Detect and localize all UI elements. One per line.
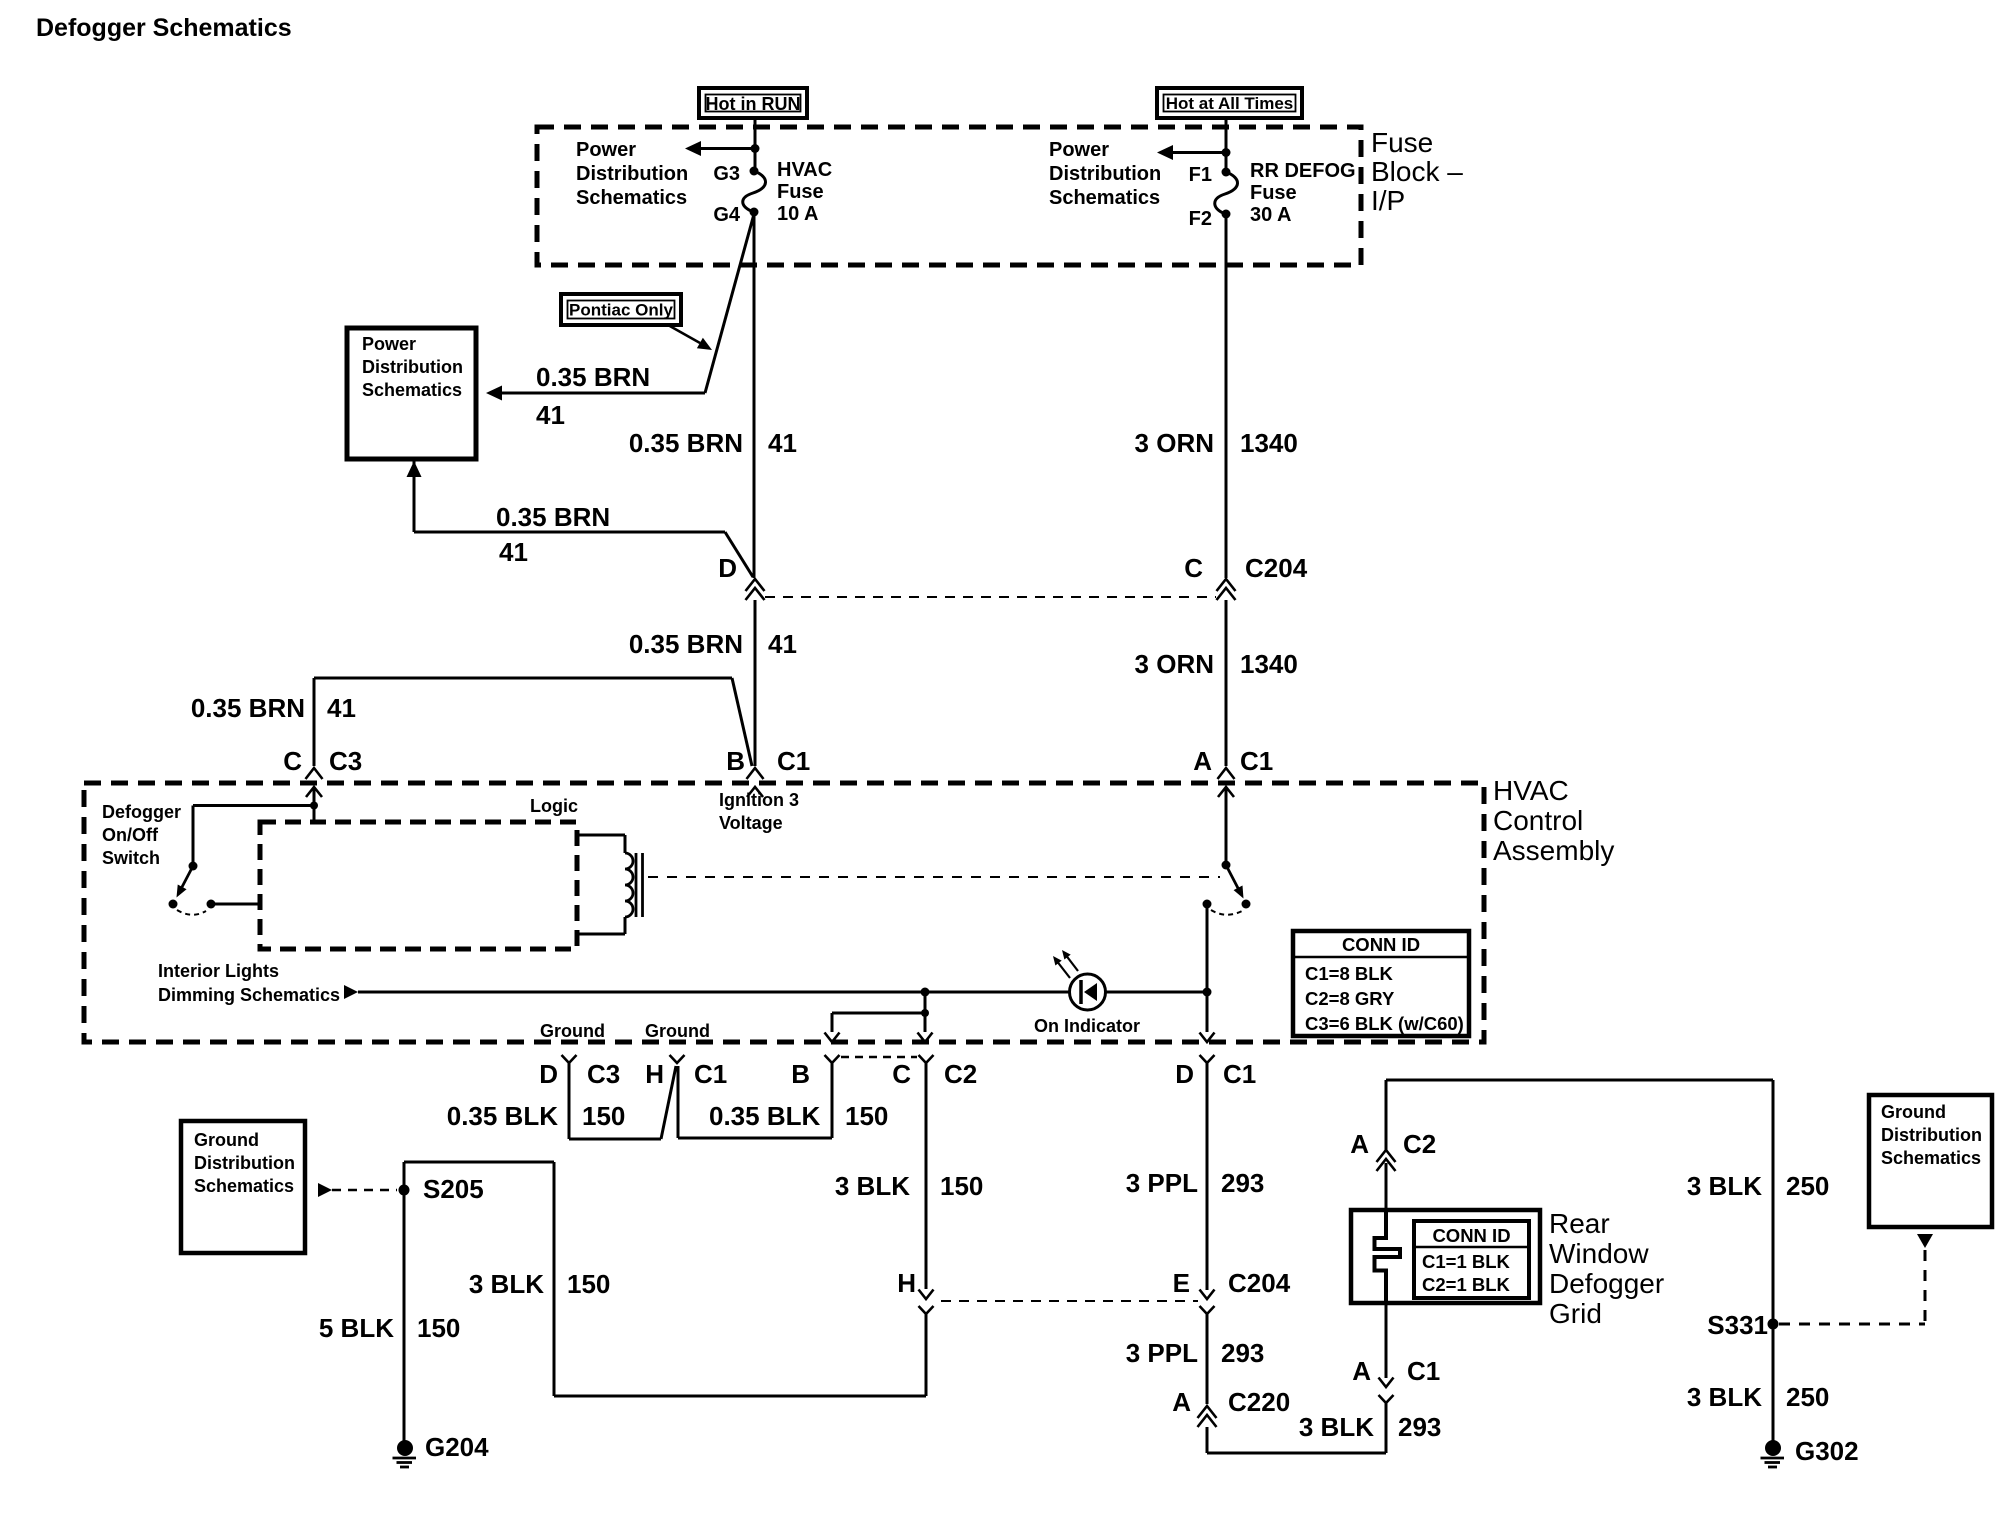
svg-text:Schematics: Schematics <box>1049 187 1160 209</box>
svg-text:Schematics: Schematics <box>194 1176 294 1196</box>
LED light rays <box>1056 960 1070 978</box>
svg-text:I/P: I/P <box>1371 185 1405 216</box>
junction dot at HVAC feed <box>751 144 760 153</box>
junction dot at RR DEFOG feed <box>1222 148 1231 157</box>
rear window defogger grid box <box>1351 1210 1540 1303</box>
svg-text:Switch: Switch <box>102 848 160 868</box>
svg-text:On Indicator: On Indicator <box>1034 1016 1140 1036</box>
svg-text:0.35 BRN: 0.35 BRN <box>536 362 650 392</box>
leader arrow from Pontiac Only box <box>668 325 700 343</box>
fuse block I/P dashed box <box>537 127 1361 265</box>
svg-text:Hot at All Times: Hot at All Times <box>1166 94 1294 113</box>
ground G302 <box>1765 1440 1781 1456</box>
svg-text:3 BLK: 3 BLK <box>1687 1171 1762 1201</box>
svg-text:293: 293 <box>1221 1338 1264 1368</box>
svg-text:Defogger: Defogger <box>102 802 181 822</box>
svg-text:A: A <box>1350 1129 1369 1159</box>
svg-text:C: C <box>283 746 302 776</box>
wire: power distribution branch arrow (right) <box>1173 151 1226 154</box>
wire: 0.35 BRN 41 branch to C3 <box>314 677 732 680</box>
svg-text:Distribution: Distribution <box>362 357 463 377</box>
svg-text:10 A: 10 A <box>777 203 819 225</box>
wire: 0.35 BRN branch to power dist (second) <box>407 461 422 477</box>
svg-text:C2: C2 <box>944 1059 977 1089</box>
relay coil feed wires <box>577 834 625 837</box>
svg-text:C220: C220 <box>1228 1387 1290 1417</box>
svg-text:150: 150 <box>845 1101 888 1131</box>
splice S205 <box>399 1185 410 1196</box>
svg-text:Distribution: Distribution <box>576 163 688 185</box>
svg-text:C1: C1 <box>1223 1059 1256 1089</box>
svg-text:Voltage: Voltage <box>719 813 783 833</box>
wire: 3 BLK 293 run to grid <box>1206 1427 1209 1453</box>
HVAC control assembly dashed box <box>84 783 1484 1042</box>
ref box: Ground Distribution Schematics (left) <box>181 1121 305 1253</box>
svg-text:Schematics: Schematics <box>362 380 462 400</box>
ref box: Power Distribution Schematics <box>347 328 476 459</box>
wire: 3 ORN 1340 C204 to HVAC <box>1225 600 1228 766</box>
svg-text:Window: Window <box>1549 1238 1649 1269</box>
defogger on/off switch <box>189 862 198 871</box>
switch throw dashed arc <box>177 910 206 915</box>
svg-text:3 PPL: 3 PPL <box>1126 1338 1198 1368</box>
wire: 5 BLK 150 to G204 <box>403 1162 406 1441</box>
svg-text:S205: S205 <box>423 1174 484 1204</box>
svg-text:RR DEFOG: RR DEFOG <box>1250 160 1356 182</box>
svg-text:Dimming Schematics: Dimming Schematics <box>158 985 340 1005</box>
junction dot ground branch <box>921 988 930 997</box>
svg-text:Rear: Rear <box>1549 1208 1610 1239</box>
svg-text:C1: C1 <box>777 746 810 776</box>
svg-text:Distribution: Distribution <box>1049 163 1161 185</box>
pin G4 <box>750 208 759 217</box>
relay core bars <box>635 853 638 917</box>
defogger grid element <box>1375 1212 1401 1301</box>
svg-text:Ground: Ground <box>194 1130 259 1150</box>
svg-text:30 A: 30 A <box>1250 204 1292 226</box>
dashed jumper pin B to pin C <box>841 1056 917 1059</box>
svg-text:C3: C3 <box>329 746 362 776</box>
svg-text:Ground: Ground <box>1881 1102 1946 1122</box>
interior lights dimming feed arrow <box>344 985 358 999</box>
svg-text:3 BLK: 3 BLK <box>1299 1412 1374 1442</box>
wire: ground branch down <box>924 992 927 1013</box>
wire: grid C2 up <box>1385 1163 1388 1210</box>
dashed ref to ground distribution (right) <box>1779 1323 1925 1326</box>
svg-text:C204: C204 <box>1228 1268 1291 1298</box>
wire: LED to relay node <box>1106 991 1207 994</box>
flag box: Pontiac Only <box>561 294 681 325</box>
svg-text:B: B <box>726 746 745 776</box>
svg-text:Hot in RUN: Hot in RUN <box>706 94 801 114</box>
logic dashed box <box>260 822 577 949</box>
svg-text:Ignition 3: Ignition 3 <box>719 790 799 810</box>
wire: relay output down <box>1206 904 1209 992</box>
wire: grid element to C1 <box>1385 1303 1388 1378</box>
wire: relay node to pin D <box>1206 992 1209 1032</box>
svg-text:3 ORN: 3 ORN <box>1135 428 1214 458</box>
relay coil <box>625 853 633 917</box>
svg-text:G302: G302 <box>1795 1436 1859 1466</box>
svg-text:C2=1 BLK: C2=1 BLK <box>1422 1274 1511 1295</box>
wire: 3 BLK 150 to S205 run <box>925 1314 928 1396</box>
svg-text:3 BLK: 3 BLK <box>1687 1382 1762 1412</box>
svg-text:C1=8 BLK: C1=8 BLK <box>1305 963 1394 984</box>
svg-text:Power: Power <box>362 334 416 354</box>
svg-text:Schematics: Schematics <box>1881 1148 1981 1168</box>
svg-text:293: 293 <box>1221 1168 1264 1198</box>
svg-text:Power: Power <box>1049 139 1109 161</box>
svg-text:C204: C204 <box>1245 553 1308 583</box>
ground G204 <box>397 1440 413 1456</box>
svg-text:B: B <box>791 1059 810 1089</box>
svg-text:3 PPL: 3 PPL <box>1126 1168 1198 1198</box>
svg-text:150: 150 <box>567 1269 610 1299</box>
splice S331 <box>1768 1319 1779 1330</box>
svg-text:293: 293 <box>1398 1412 1441 1442</box>
wire: 0.35 BLK 150 H to B <box>677 1066 680 1138</box>
svg-text:D: D <box>718 553 737 583</box>
svg-text:Power: Power <box>576 139 636 161</box>
wire: branch to pin C <box>924 1013 927 1032</box>
svg-text:Defogger Schematics: Defogger Schematics <box>36 14 292 42</box>
wire: 3 PPL 293 pin D to C204 <box>1206 1063 1209 1290</box>
svg-text:D: D <box>539 1059 558 1089</box>
svg-text:HVAC: HVAC <box>1493 775 1569 806</box>
svg-text:3 ORN: 3 ORN <box>1135 649 1214 679</box>
svg-text:Distribution: Distribution <box>1881 1125 1982 1145</box>
relay throw dashed arc <box>1211 910 1242 915</box>
flag box: Hot at All Times <box>1157 88 1302 118</box>
relay actuation dashed link <box>648 876 1220 878</box>
svg-text:C3=6 BLK (w/C60): C3=6 BLK (w/C60) <box>1305 1013 1464 1034</box>
conn id table (HVAC) <box>1293 931 1469 1036</box>
svg-text:250: 250 <box>1786 1171 1829 1201</box>
wire: RR DEFOG feed drop <box>1225 118 1228 172</box>
svg-text:0.35 BRN: 0.35 BRN <box>191 693 305 723</box>
junction dot ground branch 2 <box>921 1009 929 1017</box>
svg-text:E: E <box>1173 1268 1190 1298</box>
relay switch <box>1222 861 1231 870</box>
svg-text:5 BLK: 5 BLK <box>319 1313 394 1343</box>
svg-text:C: C <box>892 1059 911 1089</box>
svg-text:0.35 BRN: 0.35 BRN <box>629 629 743 659</box>
connector C204 dashed tie line <box>765 596 1216 598</box>
wire: 0.35 BRN 41 C204 to HVAC <box>754 600 757 766</box>
svg-text:A: A <box>1172 1387 1191 1417</box>
svg-text:150: 150 <box>417 1313 460 1343</box>
svg-text:41: 41 <box>768 629 797 659</box>
svg-text:Block –: Block – <box>1371 156 1463 187</box>
wire: 0.35 BRN branch to power dist (Pontiac) <box>705 214 754 393</box>
connector H inline (female) <box>919 1306 934 1314</box>
ref box: Ground Distribution Schematics (right) <box>1869 1095 1992 1227</box>
svg-text:0.35 BRN: 0.35 BRN <box>496 502 610 532</box>
svg-text:S331: S331 <box>1707 1310 1768 1340</box>
svg-text:41: 41 <box>768 428 797 458</box>
svg-text:CONN ID: CONN ID <box>1342 934 1420 955</box>
svg-text:F2: F2 <box>1189 208 1212 230</box>
svg-text:41: 41 <box>536 400 565 430</box>
svg-text:Fuse: Fuse <box>1371 127 1433 158</box>
svg-text:0.35 BRN: 0.35 BRN <box>629 428 743 458</box>
svg-text:3 BLK: 3 BLK <box>469 1269 544 1299</box>
svg-text:H: H <box>897 1268 916 1298</box>
LED on indicator <box>1070 974 1106 1010</box>
wire: 3 BLK 250 top run <box>1386 1079 1773 1082</box>
svg-text:C3: C3 <box>587 1059 620 1089</box>
svg-text:3 BLK: 3 BLK <box>835 1171 910 1201</box>
pin F2 <box>1222 210 1231 219</box>
svg-text:Assembly: Assembly <box>1493 835 1614 866</box>
wire: power distribution branch arrow (left) <box>701 147 755 150</box>
svg-text:On/Off: On/Off <box>102 825 159 845</box>
svg-text:C2=8 GRY: C2=8 GRY <box>1305 988 1395 1009</box>
svg-text:Ground: Ground <box>540 1021 605 1041</box>
pin G3 <box>750 167 759 176</box>
svg-text:H: H <box>645 1059 664 1089</box>
svg-text:A: A <box>1193 746 1212 776</box>
svg-text:Grid: Grid <box>1549 1298 1602 1329</box>
fuse RR DEFOG 30A element <box>1215 172 1238 214</box>
svg-text:Distribution: Distribution <box>194 1153 295 1173</box>
svg-text:Pontiac Only: Pontiac Only <box>569 301 673 320</box>
svg-text:Fuse: Fuse <box>777 181 824 203</box>
svg-text:G204: G204 <box>425 1432 489 1462</box>
svg-text:Schematics: Schematics <box>576 187 687 209</box>
svg-text:41: 41 <box>327 693 356 723</box>
fuse HVAC 10A element <box>743 171 766 212</box>
pin F1 <box>1222 168 1231 177</box>
svg-text:0.35 BLK: 0.35 BLK <box>709 1101 820 1131</box>
wire: branch to pin B <box>832 1012 925 1015</box>
svg-text:Defogger: Defogger <box>1549 1268 1664 1299</box>
dashed tie to connector E <box>941 1300 1198 1302</box>
svg-text:A: A <box>1352 1356 1371 1386</box>
svg-text:Control: Control <box>1493 805 1583 836</box>
junction dot at relay output <box>1203 988 1212 997</box>
wire: 3 PPL 293 C204 to C220 <box>1206 1314 1209 1404</box>
wire: Hot in RUN feed drop <box>754 118 757 171</box>
svg-text:Logic: Logic <box>530 796 578 816</box>
junction dot C3 node <box>310 802 318 810</box>
svg-text:G3: G3 <box>713 163 740 185</box>
svg-text:Fuse: Fuse <box>1250 182 1297 204</box>
svg-text:41: 41 <box>499 537 528 567</box>
svg-text:Ground: Ground <box>645 1021 710 1041</box>
svg-text:C2: C2 <box>1403 1129 1436 1159</box>
conn id table (grid) <box>1414 1221 1529 1298</box>
wire: 0.35 BLK 150 D to H <box>568 1063 571 1139</box>
svg-text:Interior Lights: Interior Lights <box>158 961 279 981</box>
svg-text:G4: G4 <box>713 204 741 226</box>
svg-text:CONN ID: CONN ID <box>1432 1225 1510 1246</box>
svg-text:F1: F1 <box>1189 164 1212 186</box>
svg-text:C1: C1 <box>694 1059 727 1089</box>
flag box: Hot in RUN <box>699 88 807 118</box>
svg-text:1340: 1340 <box>1240 649 1298 679</box>
svg-text:C: C <box>1184 553 1203 583</box>
wire: switch to C3 node <box>193 804 314 807</box>
svg-text:C1: C1 <box>1407 1356 1440 1386</box>
wire: C3 node to logic box <box>313 806 316 822</box>
svg-text:150: 150 <box>940 1171 983 1201</box>
svg-text:HVAC: HVAC <box>777 159 832 181</box>
svg-text:150: 150 <box>582 1101 625 1131</box>
wire: switch output to logic <box>211 903 260 906</box>
wire: 3 BLK 150 from pin C <box>925 1063 928 1289</box>
svg-text:C1=1 BLK: C1=1 BLK <box>1422 1251 1511 1272</box>
svg-text:250: 250 <box>1786 1382 1829 1412</box>
svg-text:C1: C1 <box>1240 746 1273 776</box>
svg-text:D: D <box>1175 1059 1194 1089</box>
wire: 0.35 BRN 41 fuse to C204 <box>753 214 756 578</box>
svg-text:0.35 BLK: 0.35 BLK <box>447 1101 558 1131</box>
dashed ref to ground distribution <box>332 1189 397 1192</box>
svg-text:1340: 1340 <box>1240 428 1298 458</box>
wire: 3 ORN 1340 fuse to C204 <box>1225 216 1228 578</box>
